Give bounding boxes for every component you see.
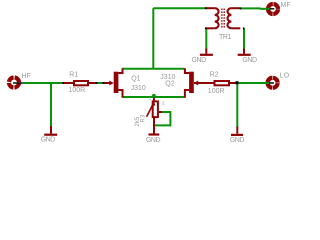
junction at LO net [236,81,239,84]
potentiometer R3 [147,96,162,135]
transistor Q1 [104,68,123,98]
ground left [44,126,57,135]
ground under LO [231,127,243,135]
resistor R1 [63,81,97,85]
pin tip R1 right [96,82,98,84]
connector HF ring [9,78,19,88]
wire HF to R1 [23,82,64,84]
ground bottom center [149,133,160,135]
svg-text:GND: GND [146,137,161,144]
wire transformer to MF over ring [260,8,271,10]
wire transformer to MF [240,7,261,9]
wire riser to top rail [152,8,154,69]
ground under transformer left [200,49,213,55]
pin tip R1 left [62,82,64,84]
pin tip transformer bottom-left [205,27,207,29]
resistor R2 [194,81,236,85]
svg-text:GND: GND [192,57,207,64]
pin of MF connector [270,8,275,10]
svg-text:100R: 100R [208,88,225,95]
svg-text:TR1: TR1 [219,34,232,41]
connector LO ring [268,78,278,88]
transformer TR1 [206,8,241,28]
pin of LO connector [269,82,274,84]
svg-text:R2: R2 [210,71,219,78]
wire R2 to LO [233,82,270,84]
ground under transformer right [238,49,251,55]
wire R1 to Q1 gate [96,82,106,84]
wire trimmer wiper loop [154,112,171,125]
connector MF ring [268,4,278,14]
svg-text:R3: R3 [141,114,147,122]
wire box bottom edge [123,96,185,98]
svg-text:MF: MF [281,2,291,9]
svg-text:GND: GND [242,57,257,64]
pin tip transformer bottom-right [243,27,245,29]
wire transformer left to GND [205,28,207,49]
svg-text:100R: 100R [69,87,86,94]
pin tip transformer top-left [205,7,207,9]
svg-text:J310: J310 [131,85,146,92]
wire down to left GND [50,83,52,127]
svg-text:LO: LO [280,72,290,79]
pin tip Q1 gate [103,82,105,84]
svg-text:GND: GND [230,137,245,144]
wire box top edge [123,68,185,70]
wire LO junction down to GND [236,83,238,127]
pin tip transformer top-right [240,8,242,10]
wire top rail to transformer [153,7,206,9]
svg-text:Q1: Q1 [131,75,140,82]
svg-text:Q2: Q2 [165,80,174,87]
transistor Q2 [185,68,198,98]
svg-text:R1: R1 [69,72,78,79]
svg-text:HF: HF [22,73,31,80]
junction at trimmer top [152,94,156,98]
svg-text:GND: GND [41,137,56,144]
wire transformer right to GND [243,28,245,49]
pin of HF connector [13,82,23,84]
